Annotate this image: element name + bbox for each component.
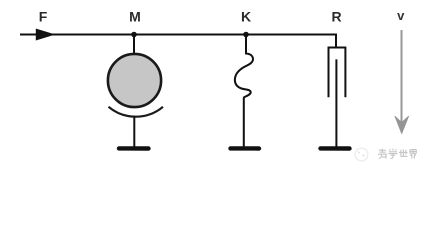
wire: mass to ground (133, 116, 135, 147)
svg-text:F: F (39, 8, 48, 24)
node M junction dot (131, 32, 137, 38)
node K junction dot (243, 32, 249, 38)
ground under M (119, 146, 149, 151)
watermark char xue (388, 149, 397, 159)
damper R cylinder (inverted U) (329, 48, 346, 98)
ground under K (231, 146, 260, 151)
watermark char sheng (378, 149, 387, 159)
svg-text:v: v (397, 8, 405, 23)
cradle arc under mass (109, 107, 164, 117)
mass M circle (108, 54, 161, 107)
wire: stub node M to mass (133, 35, 135, 56)
svg-text:M: M (129, 9, 141, 25)
watermark logo circle (355, 148, 368, 161)
ground under R (321, 146, 350, 151)
force arrowhead F (36, 29, 53, 40)
wire: main horizontal line F to R corner (20, 34, 336, 36)
svg-text:K: K (241, 8, 251, 24)
watermark text 声学世界 (378, 149, 416, 159)
velocity arrow v shaft (401, 30, 403, 128)
damper R piston rod to ground (335, 59, 337, 147)
wire: corner from main line down to damper cylinder (335, 34, 337, 48)
spring K (235, 35, 253, 148)
watermark char shi (399, 149, 408, 156)
svg-text:R: R (331, 8, 341, 24)
watermark char jie (410, 150, 416, 159)
velocity arrow v head (395, 116, 409, 133)
